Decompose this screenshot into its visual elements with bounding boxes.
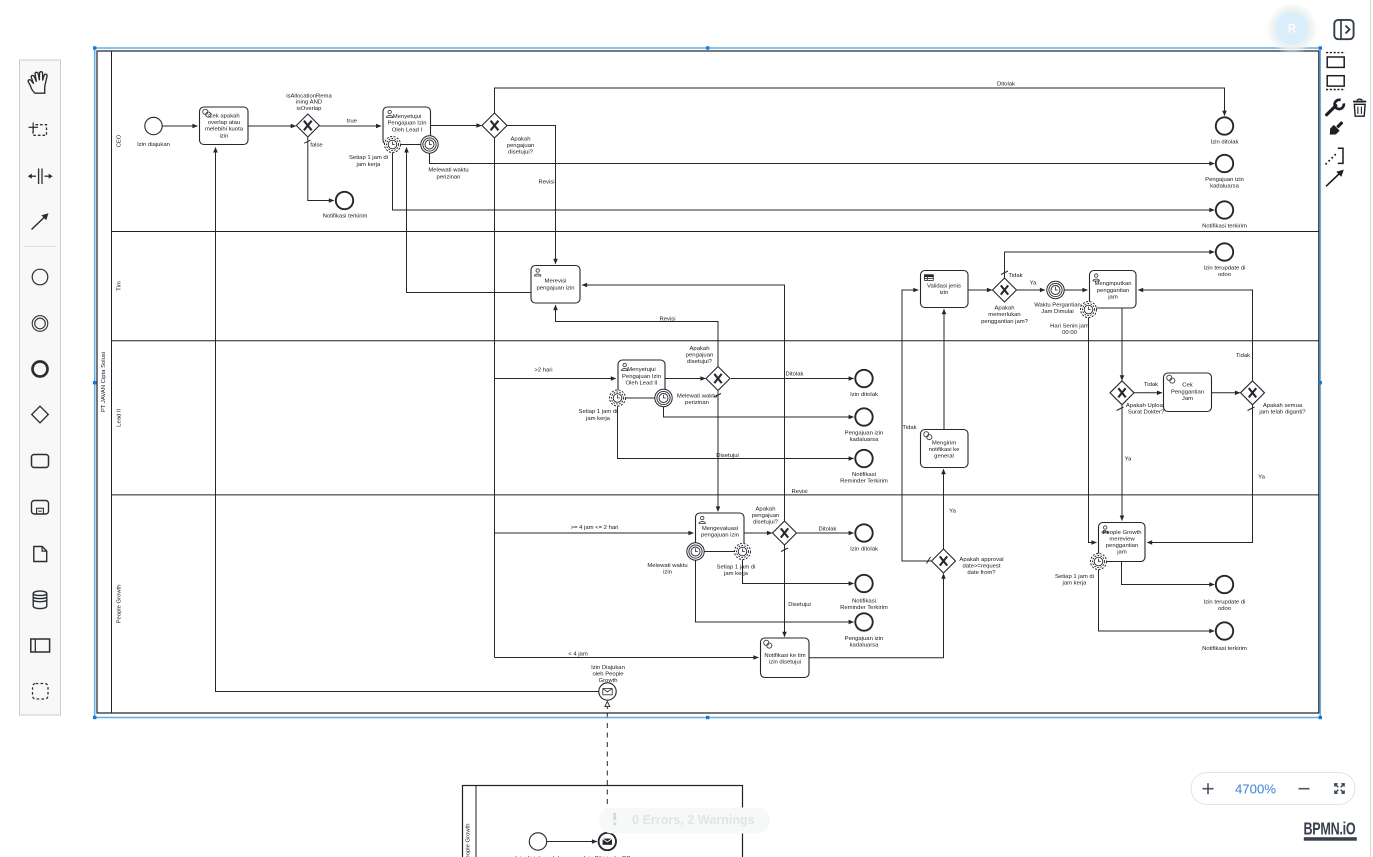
svg-text:Apakah: Apakah	[511, 137, 531, 143]
wire: task Mengirim notifikasi -> task Validasi jenis izin (bottom)	[943, 309, 945, 429]
svg-text:notifikasi ke: notifikasi ke	[929, 447, 961, 453]
wire: gateway memerlukan Tidak -> end Izin terupdate di odoo	[1005, 252, 1215, 278]
svg-text:Notifikasi ke tim: Notifikasi ke tim	[764, 653, 805, 659]
svg-text:Revisi: Revisi	[538, 179, 554, 185]
wire: task Menyetujui Lead I -> gateway Apakah pengajuan disetujui?	[431, 125, 482, 127]
svg-text:Ditolak: Ditolak	[997, 81, 1015, 87]
task Menyetujui Pengajuan Izin Oleh Lead II (user)	[618, 360, 665, 398]
wire: gateway PG Ditolak -> end Izin ditolak PG	[797, 532, 854, 534]
bpmn.io logo	[1304, 820, 1357, 841]
wire: corridor >2 hari -> task Menyetujui Lead II	[495, 378, 616, 380]
participant pool People Growth (bottom)	[463, 786, 743, 857]
svg-text:Setiap 1 jam di: Setiap 1 jam di	[717, 564, 756, 570]
svg-text:Melewati waktu: Melewati waktu	[428, 168, 468, 174]
context pad: trash	[1353, 99, 1366, 116]
svg-text:izin: izin	[220, 133, 229, 139]
svg-text:Tidak: Tidak	[1144, 382, 1158, 388]
context pad: wrench (settings)	[1327, 97, 1348, 115]
svg-text:< 4 jam: < 4 jam	[568, 652, 588, 658]
svg-text:pengajuan: pengajuan	[752, 513, 780, 519]
palette: create group	[33, 684, 49, 700]
wire: gateway PG Disetujui -> task Notifikasi ke tim	[784, 546, 786, 637]
wire: gateway CEO down corridor to lower lanes	[494, 138, 496, 658]
wire: gateway Lead II Revisi -> task Merevisi pengajuan izin (bottom)	[556, 305, 719, 366]
svg-text:Apakah: Apakah	[756, 506, 776, 512]
svg-text:ining AND: ining AND	[296, 100, 322, 106]
gateway Apakah Upload Surat Dokter?	[1110, 381, 1166, 416]
svg-text:Notifikasi terkirim: Notifikasi terkirim	[1202, 223, 1247, 229]
wire: task Mengevaluasi -> gateway disetujui PG	[744, 532, 772, 534]
wire: gateway Lead II Ditolak -> end Izin ditolak (Lead II)	[731, 378, 854, 380]
svg-text:izin: izin	[663, 570, 672, 576]
svg-text:Tidak: Tidak	[1008, 273, 1022, 279]
svg-text:melebihi kuota: melebihi kuota	[205, 127, 244, 133]
end event Pengajuan izin kadaluarsa (CEO)	[1205, 155, 1244, 190]
svg-text:overlap atau: overlap atau	[208, 120, 240, 126]
task People Growth mereview penggantian jam (user)	[1099, 523, 1146, 562]
svg-text:odoo: odoo	[1218, 606, 1232, 612]
boundary timer Melewati waktu izin (PG)	[647, 543, 704, 576]
svg-text:Izin ditolak: Izin ditolak	[850, 547, 878, 553]
svg-text:true: true	[347, 118, 358, 124]
svg-text:R: R	[1288, 24, 1297, 36]
svg-text:Cek: Cek	[1182, 383, 1193, 389]
default-flow slash on false wire	[304, 140, 310, 143]
selection outline of pool PT JAVAN	[93, 46, 1322, 719]
wire: boundary timer Setiap 1 jam (mereview) -> end Notifikasi terkirim PG	[1099, 570, 1215, 631]
svg-text:disetujui?: disetujui?	[753, 519, 779, 525]
task Notifikasi ke tim izin disetujui (service)	[761, 638, 810, 678]
svg-text:oleh People: oleh People	[592, 671, 624, 677]
svg-text:date>=request: date>=request	[963, 564, 1001, 570]
wire: gateway Upload Surat Dokter Ya -> task People Growth mereview (top)	[1121, 405, 1123, 520]
message flow pool2 -> Izin Diajukan oleh People Growth (dashed)	[606, 702, 608, 833]
svg-text:disetujui?: disetujui?	[508, 149, 534, 155]
svg-text:jam kerja: jam kerja	[1062, 581, 1088, 587]
context pad: add lane below	[1326, 76, 1345, 90]
lane CEO	[117, 134, 123, 147]
svg-text:>= 4 jam <= 2 hari: >= 4 jam <= 2 hari	[571, 525, 619, 531]
svg-text:Izin Diajukan: Izin Diajukan	[591, 665, 625, 671]
svg-text:Melewati waktu: Melewati waktu	[677, 393, 717, 399]
wire: start pool2 -> message end	[547, 841, 597, 843]
task Mengirim notifikasi ke general (service)	[921, 430, 969, 468]
svg-text:Disetujui: Disetujui	[716, 453, 739, 459]
wire: boundary timer Setiap 1 jam (Lead I) -> end Notifikasi terkirim (right)	[393, 153, 1215, 210]
palette: create task	[32, 455, 49, 468]
end event Izin ditolak (PG)	[850, 524, 878, 552]
wire: gateway Apakah pengajuan disetujui? Revisi -> task Merevisi pengajuan izin	[507, 126, 556, 264]
svg-text:People Growth: People Growth	[117, 585, 123, 624]
context pad: paintbrush (colors)	[1327, 119, 1345, 137]
start event pool2	[515, 833, 561, 857]
svg-text:Ditolak: Ditolak	[818, 526, 836, 532]
svg-text:PT JAVAN Cipta Solusi: PT JAVAN Cipta Solusi	[101, 352, 107, 412]
palette: create subprocess	[32, 501, 49, 515]
wire: sequence flow task Cek apakah overlap -> gateway isAllocationRemaining	[248, 125, 296, 127]
right border (collapsed properties panel)	[1370, 0, 1372, 857]
gateway Apakah approval date>=request date from?	[932, 549, 1004, 576]
svg-text:Setiap 1 jam di: Setiap 1 jam di	[349, 155, 388, 161]
boundary timer Melewati waktu perizinan (Lead I)	[421, 136, 469, 181]
svg-text:mereview: mereview	[1109, 536, 1135, 542]
svg-text:izin: izin	[940, 290, 949, 296]
start event Izin diajukan	[137, 117, 170, 148]
default-flow slash gateway Upload Surat Dokter	[1117, 407, 1124, 411]
svg-text:Melewati waktu: Melewati waktu	[647, 563, 687, 569]
svg-text:jam kerja: jam kerja	[585, 416, 611, 422]
lane Tim	[112, 232, 1319, 291]
boundary timer Setiap 1 jam di jam kerja (PG evaluasi, non-interrupting)	[717, 544, 756, 578]
svg-text:Menyetujui: Menyetujui	[627, 367, 656, 373]
context pad: connect arrow	[1326, 170, 1344, 187]
wire: sequence flow start Izin diajukan -> task Cek apakah overlap	[162, 125, 197, 127]
svg-text:jam: jam	[1116, 549, 1127, 555]
end event Notifikasi terkirim (CEO right)	[1202, 201, 1247, 229]
default-flow slash gateway PG	[781, 548, 788, 552]
palette: create data store	[33, 591, 47, 609]
svg-text:kadaluarsa: kadaluarsa	[1210, 184, 1240, 190]
svg-text:Notifikasi terkirim: Notifikasi terkirim	[323, 214, 368, 220]
task Validasi jenis izin (business rule)	[921, 271, 969, 308]
svg-text:pengajuan: pengajuan	[507, 143, 535, 149]
wire: boundary timer Melewati waktu perizinan (Lead II) -> end Pengajuan izin kadaluarsa	[664, 407, 854, 417]
svg-text:memerlukan: memerlukan	[988, 312, 1020, 318]
svg-text:Ya: Ya	[1125, 457, 1132, 463]
default-flow slash gateway Lead II	[714, 394, 721, 398]
wire: task Menginputkan penggantian jam -> gateway Apakah Upload Surat Dokter?	[1121, 309, 1123, 381]
wire: task Validasi jenis izin -> gateway Apakah memerlukan penggantian jam?	[968, 289, 992, 291]
wire: gateway semua jam Tidak -> task Menginputkan penggantian jam (right)	[1138, 290, 1252, 380]
task Merevisi pengajuan izin (user, Tim lane)	[531, 266, 580, 304]
task Mengevaluasi pengajuan izin (user)	[696, 513, 745, 552]
svg-text:penggantian jam?: penggantian jam?	[981, 319, 1029, 325]
task Menginputkan penggantian jam (user)	[1090, 271, 1137, 309]
svg-text:Tidak: Tidak	[1236, 353, 1250, 359]
wire: boundary timer Melewati waktu izin -> end Pengajuan izin kadaluarsa PG	[696, 561, 854, 623]
svg-text:Penggantian: Penggantian	[1171, 389, 1204, 395]
gateway Apakah memerlukan penggantian jam?	[981, 278, 1029, 325]
svg-text:Oleh Lead I: Oleh Lead I	[392, 127, 423, 133]
svg-text:isAllocationRema: isAllocationRema	[286, 93, 332, 99]
svg-text:Merevisi: Merevisi	[545, 279, 567, 285]
svg-text:jam telah diganti?: jam telah diganti?	[1258, 410, 1306, 416]
svg-text:false: false	[310, 142, 323, 148]
context pad: add lane above	[1326, 53, 1345, 68]
svg-text:pengajuan izin: pengajuan izin	[537, 285, 575, 291]
svg-text:Disetujui: Disetujui	[788, 602, 811, 608]
svg-text:Jam Dimulai: Jam Dimulai	[1041, 309, 1073, 315]
wire: gateway memerlukan Ya -> timer Waktu Pergantian Jam Dimulai	[1017, 289, 1045, 291]
svg-text:Apakah: Apakah	[995, 306, 1015, 312]
svg-text:Pengajuan izin: Pengajuan izin	[1205, 177, 1244, 183]
end event Notifikasi terkirim (PG)	[1202, 622, 1247, 652]
wire: task Merevisi pengajuan izin -> task Menyetujui Lead I	[407, 148, 531, 293]
svg-text:Apakah approval: Apakah approval	[959, 557, 1003, 563]
wire: task Menyetujui Lead II -> gateway disetujui Lead II	[665, 378, 705, 380]
svg-text:Revisi: Revisi	[791, 489, 807, 495]
boundary timer Setiap 1 jam di jam kerja (Lead II, non-interrupting)	[579, 390, 626, 422]
end event Notifikasi terkirim (CEO)	[323, 192, 368, 220]
gateway isAllocationRemaining AND isOverlap	[286, 93, 332, 137]
wire: corridor >= 4 jam <= 2 hari -> task Mengevaluasi pengajuan izin	[495, 532, 694, 534]
wire: timer Waktu Pergantian -> task Menginputkan penggantian jam	[1065, 289, 1088, 291]
palette tool: space	[28, 169, 53, 185]
svg-text:Pengajuan izin: Pengajuan izin	[845, 431, 884, 437]
svg-text:perizinan: perizinan	[437, 174, 461, 180]
end event Izin ditolak (CEO)	[1211, 117, 1239, 145]
svg-text:Pengajuan Izin: Pengajuan Izin	[388, 121, 427, 127]
svg-text:kadaluarsa: kadaluarsa	[850, 643, 880, 649]
svg-text:Oleh Lead II: Oleh Lead II	[625, 381, 657, 387]
svg-text:Setiap 1 jam di: Setiap 1 jam di	[579, 409, 618, 415]
svg-text:Apakah: Apakah	[690, 346, 710, 352]
default-flow slash gateway memerlukan	[1001, 271, 1008, 275]
svg-text:Apakah Upload: Apakah Upload	[1126, 403, 1166, 409]
svg-text:Reminder Terkirim: Reminder Terkirim	[840, 479, 888, 485]
svg-text:BPMN.iO: BPMN.iO	[1304, 820, 1356, 840]
wire: sequence flow gateway -> task Menyetujui Lead I (true)	[319, 125, 381, 127]
svg-text:penggantian: penggantian	[1106, 543, 1138, 549]
svg-text:CEO: CEO	[117, 134, 123, 147]
svg-text:izin disetujui: izin disetujui	[769, 660, 801, 666]
task Cek apakah overlap atau melebihi kuota izin (service)	[200, 107, 249, 145]
task Cek Penggantian Jam (service)	[1164, 373, 1212, 412]
svg-text:Pengajuan izin: Pengajuan izin	[845, 636, 884, 642]
wire: gateway Lead II down Disetujui -> task Mengevaluasi	[717, 391, 719, 511]
svg-text:penggantian: penggantian	[1097, 288, 1129, 294]
svg-text:Notifikasi: Notifikasi	[852, 598, 876, 604]
svg-text:odoo: odoo	[1218, 272, 1232, 278]
svg-text:general: general	[934, 454, 954, 460]
wire: gateway approval Ya -> task Mengirim notifikasi ke general	[943, 469, 945, 549]
palette: create pool/participant	[31, 639, 50, 652]
svg-text:Izin terupdate di: Izin terupdate di	[1204, 600, 1246, 606]
lane People Growth	[112, 495, 1319, 624]
wire: gateway PG Revisi -> task Merevisi pengajuan izin (right side)	[582, 285, 784, 521]
participant pool PT JAVAN Cipta Solusi	[97, 51, 1319, 713]
gateway Apakah pengajuan disetujui? (PG)	[752, 506, 797, 545]
svg-text:pengajuan: pengajuan	[686, 352, 714, 358]
gateway Apakah pengajuan disetujui? (Lead II)	[686, 346, 730, 391]
boundary timer Setiap 1 jam di jam kerja (Lead I, non-interrupting)	[349, 137, 400, 168]
default-flow slash gateway approval	[927, 557, 931, 564]
svg-text:Ya: Ya	[949, 508, 956, 514]
svg-text:disetujui?: disetujui?	[687, 359, 713, 365]
end event Izin terupdate di odoo (PG)	[1204, 576, 1246, 612]
wire: task Cek Penggantian Jam -> gateway Apakah semua jam telah diganti?	[1212, 392, 1240, 394]
svg-text:People Growth: People Growth	[466, 824, 472, 857]
svg-text:Reminder Terkirim: Reminder Terkirim	[840, 605, 888, 611]
zoom control pill	[1191, 773, 1355, 805]
svg-text:Izin diajukan: Izin diajukan	[137, 142, 170, 148]
errors warnings overlay	[599, 808, 770, 834]
wire: boundary timer Hari Senin -> task People Growth mereview (left)	[1089, 318, 1097, 543]
svg-text:Jam: Jam	[1182, 396, 1193, 402]
svg-text:Izin terupdate di: Izin terupdate di	[1204, 266, 1246, 272]
svg-text:Menginputkan: Menginputkan	[1094, 281, 1131, 287]
wire: task People Growth mereview -> end Izin terupdate di odoo PG	[1122, 562, 1215, 585]
wire: corridor < 4 jam -> task Notifikasi ke tim izin disetujui	[495, 657, 759, 659]
svg-text:Ya: Ya	[1030, 280, 1037, 286]
svg-text:Notifikasi terkirim: Notifikasi terkirim	[1202, 646, 1247, 652]
message end event Izin Dikirim ke PG	[584, 833, 631, 857]
wire: boundary timer Setiap 1 jam (PG) -> end Notifikasi Reminder Terkirim PG	[743, 560, 854, 584]
svg-text:Ya: Ya	[1258, 475, 1265, 481]
palette: create data object	[34, 547, 47, 562]
wire: boundary timer Setiap 1 jam (Lead II) -> end Notifikasi Reminder Terkirim	[618, 406, 854, 458]
palette: create start event	[32, 269, 48, 285]
svg-text:Tidak: Tidak	[902, 425, 916, 431]
svg-text:Izin ditolak: Izin ditolak	[1211, 140, 1239, 146]
svg-text:Pengajuan Izin: Pengajuan Izin	[622, 374, 661, 380]
svg-text:pengajuan izin: pengajuan izin	[701, 533, 739, 539]
context pad: divide into lanes	[1325, 148, 1343, 165]
palette: create end event	[33, 362, 48, 377]
end event Pengajuan izin kadaluarsa (PG)	[845, 613, 884, 648]
boundary timer Setiap 1 jam di jam kerja (mereview, non-interrupting)	[1055, 554, 1106, 587]
task Menyetujui Pengajuan Izin Oleh Lead I (user)	[383, 107, 431, 145]
svg-text:Cek apakah: Cek apakah	[208, 113, 239, 119]
svg-text:Tim: Tim	[117, 281, 123, 291]
wire: task Notifikasi ke tim -> gateway Apakah approval date	[809, 574, 943, 658]
end event Pengajuan izin kadaluarsa (Lead II)	[845, 408, 884, 443]
end event Notifikasi Reminder Terkirim (Lead II)	[840, 450, 888, 485]
svg-text:kadaluarsa: kadaluarsa	[850, 437, 880, 443]
wire: gateway Upload Surat Dokter Tidak -> task Cek Penggantian Jam	[1134, 392, 1162, 394]
svg-text:4700%: 4700%	[1235, 782, 1276, 797]
wire: gateway approval Tidak -> task Validasi jenis izin	[902, 290, 932, 561]
message start event Izin Diajukan oleh People Growth	[591, 665, 625, 700]
gateway Apakah semua jam telah diganti?	[1241, 381, 1307, 416]
svg-text:Menyetujui: Menyetujui	[393, 114, 422, 120]
svg-text:Hari Senin jam: Hari Senin jam	[1050, 323, 1089, 329]
svg-text:Revisi: Revisi	[659, 316, 675, 322]
palette: create intermediate event	[32, 316, 48, 332]
svg-text:Izin ditolak: Izin ditolak	[850, 392, 878, 398]
palette separator	[24, 246, 56, 248]
svg-text:Lead II: Lead II	[117, 408, 123, 426]
lane Lead II	[112, 341, 1319, 427]
intermediate timer Waktu Pergantian Jam Dimulai	[1034, 281, 1081, 315]
svg-text:Mengirim: Mengirim	[932, 440, 956, 446]
boundary timer Melewati waktu perizinan (Lead II)	[655, 389, 717, 406]
svg-text:jam kerja: jam kerja	[356, 162, 382, 168]
wire: gateway semua jam Ya -> task People Growth mereview (right)	[1147, 405, 1252, 542]
svg-text:Notifikasi: Notifikasi	[852, 472, 876, 478]
palette tool: global connect	[32, 213, 49, 229]
svg-text:Waktu Pergantian: Waktu Pergantian	[1034, 302, 1081, 308]
gateway Apakah pengajuan disetujui? (CEO)	[482, 113, 534, 155]
svg-text:Surat Dokter?: Surat Dokter?	[1128, 410, 1165, 416]
wire: sequence flow gateway false -> end Notifikasi terkirim	[308, 138, 334, 201]
svg-text:jam: jam	[1107, 295, 1118, 301]
wire: message start Izin Diajukan oleh PG -> task Cek apakah overlap	[216, 148, 599, 692]
end event Izin terupdate di odoo (Tim)	[1204, 243, 1246, 278]
wire: boundary timer Melewati waktu perizinan (Lead I) -> end Pengajuan izin kadaluarsa	[430, 153, 1215, 163]
avatar R top right	[1266, 3, 1318, 55]
default-flow slash gateway semua jam	[1248, 407, 1255, 411]
svg-text:Setiap 1 jam di: Setiap 1 jam di	[1055, 574, 1094, 580]
boundary timer Hari Senin jam 00:00 (non-interrupting)	[1050, 302, 1096, 337]
svg-text:0 Errors, 2 Warnings: 0 Errors, 2 Warnings	[632, 813, 755, 827]
left palette panel	[20, 60, 61, 715]
svg-text:>2 hari: >2 hari	[534, 367, 552, 373]
svg-text:Apakah semua: Apakah semua	[1263, 403, 1303, 409]
palette tool: hand	[28, 72, 47, 93]
svg-text:00:00: 00:00	[1062, 330, 1077, 336]
svg-text:Growth: Growth	[599, 678, 618, 684]
palette tool: lasso	[29, 123, 47, 136]
svg-text:Mengevaluasi: Mengevaluasi	[702, 526, 738, 532]
svg-text:isOverlap: isOverlap	[297, 106, 323, 112]
svg-text:Ditolak: Ditolak	[785, 371, 803, 377]
svg-text:People Growth: People Growth	[1103, 530, 1142, 536]
svg-text:jam kerja: jam kerja	[723, 571, 749, 577]
palette: create gateway	[32, 406, 49, 423]
properties panel toggle icon	[1334, 20, 1353, 39]
end event Izin ditolak (Lead II)	[850, 370, 878, 398]
svg-text:perizinan: perizinan	[685, 400, 709, 406]
end event Notifikasi Reminder Terkirim (PG)	[840, 575, 888, 611]
wire: gateway Apakah pengajuan disetujui? Ditolak -> end Izin ditolak	[495, 88, 1225, 116]
svg-text:date from?: date from?	[967, 570, 996, 576]
svg-text:Validasi jenis: Validasi jenis	[927, 284, 961, 290]
